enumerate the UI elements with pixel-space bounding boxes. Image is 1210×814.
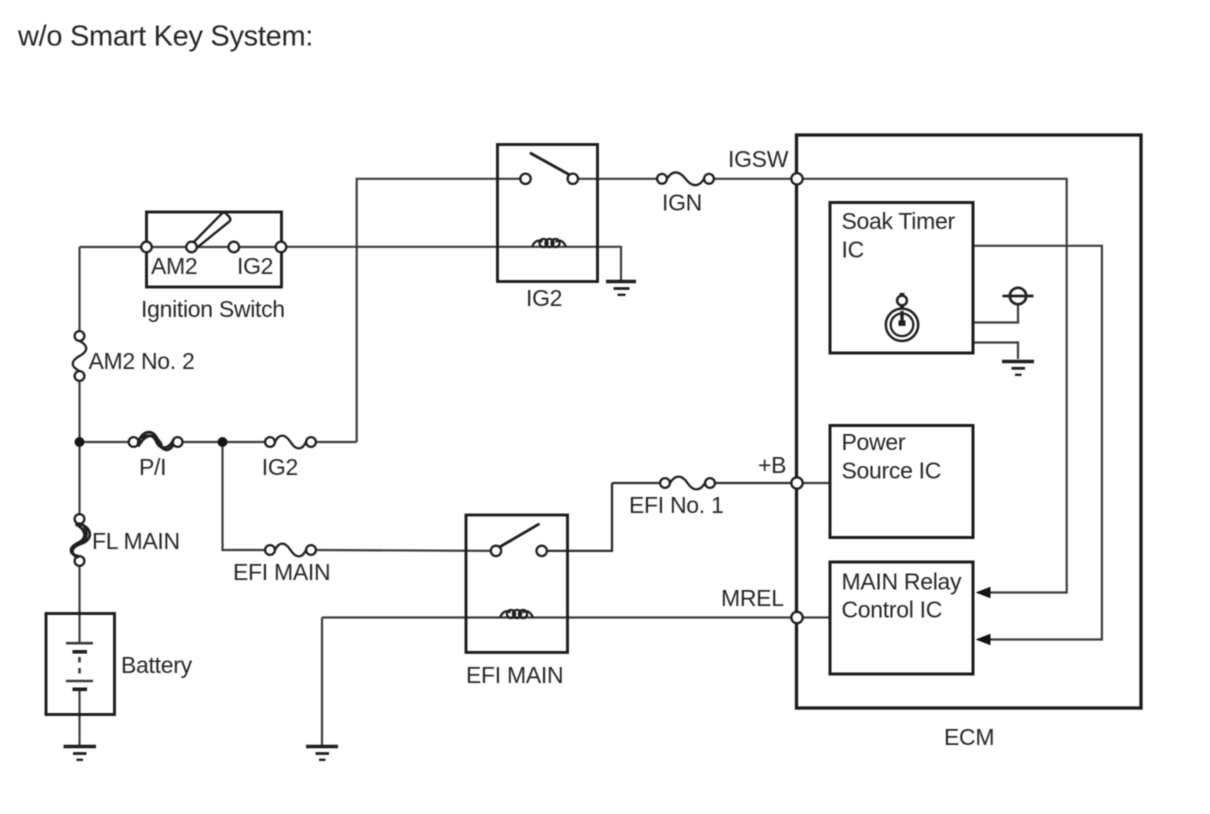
wire: soak timer output run to MAIN relay control arrow xyxy=(973,246,1102,640)
battery cell plates xyxy=(66,643,93,689)
svg-text:MREL: MREL xyxy=(721,585,784,611)
svg-text:MAIN Relay: MAIN Relay xyxy=(842,569,962,595)
EFI MAIN relay box xyxy=(466,515,568,652)
junction dot mid xyxy=(218,437,228,447)
wire: ignition switch internal row xyxy=(147,246,282,248)
arrow into MAIN relay control from soak timer line xyxy=(976,634,991,645)
svg-text:IGN: IGN xyxy=(662,190,702,216)
wire: EFI relay output up to EFI No.1 fuse and +B node xyxy=(547,483,792,551)
Power Source IC box xyxy=(830,426,973,538)
svg-text:AM2: AM2 xyxy=(151,253,197,279)
EFI relay contacts xyxy=(491,546,547,556)
ignition switch terminal circles xyxy=(141,242,286,253)
fuse IGN xyxy=(657,172,714,185)
fusible link P/I xyxy=(129,432,183,450)
EFI relay blade xyxy=(501,524,539,546)
MAIN Relay Control IC box xyxy=(830,562,973,674)
svg-text:Soak Timer: Soak Timer xyxy=(842,208,956,234)
svg-text:w/o Smart Key System:: w/o Smart Key System: xyxy=(17,21,313,53)
wire: soak timer terminal output xyxy=(973,305,1018,323)
IG2 relay blade xyxy=(531,153,569,174)
svg-text:FL MAIN: FL MAIN xyxy=(92,528,180,554)
wire: horizontal bus at fuses P/I and IG2 xyxy=(80,441,357,443)
junction dot left xyxy=(75,437,85,447)
wire: ignition switch AM2 feed xyxy=(80,246,142,248)
wire: EFI relay coil ground drop xyxy=(321,618,323,746)
svg-text:IG2: IG2 xyxy=(237,253,273,279)
ECM box xyxy=(797,135,1142,708)
svg-text:Control IC: Control IC xyxy=(842,597,943,623)
ignition switch lever xyxy=(193,213,230,248)
wire: EFI MAIN fuse to relay contact xyxy=(316,549,492,552)
svg-text:IG2: IG2 xyxy=(526,285,562,311)
svg-text:IG2: IG2 xyxy=(262,454,298,480)
wire: battery main vertical bus xyxy=(78,247,80,745)
ground below EFI relay coil xyxy=(306,747,338,760)
svg-text:AM2 No. 2: AM2 No. 2 xyxy=(89,348,195,374)
wire: riser from IG2 fuse to IG2 relay contact xyxy=(357,179,498,442)
wire: MREL stub into MAIN Relay Control IC xyxy=(803,616,831,618)
EFI relay coil xyxy=(500,610,533,618)
wire: soak timer ground output xyxy=(973,343,1018,360)
wire: ignition IG2 terminal to IG2 relay coil xyxy=(287,246,498,248)
svg-text:Power: Power xyxy=(842,429,906,455)
wire: +B stub into Power Source IC xyxy=(803,482,831,484)
fuse EFI No. 1 xyxy=(660,477,715,490)
svg-text:P/I: P/I xyxy=(139,454,166,480)
soak timer clock icon xyxy=(886,294,918,341)
svg-text:EFI MAIN: EFI MAIN xyxy=(233,559,330,585)
wire: IG2 relay coil line and ground drop xyxy=(498,247,622,280)
IG2 relay box xyxy=(498,145,598,282)
ground for soak timer xyxy=(1002,362,1034,375)
arrow into MAIN relay control from IGSW line xyxy=(976,587,991,598)
svg-text:IC: IC xyxy=(842,237,864,263)
wire: IGSW internal run to MAIN relay control arrow xyxy=(803,179,1067,593)
svg-text:+B: +B xyxy=(758,452,786,478)
ignition switch box xyxy=(147,212,282,287)
svg-text:IGSW: IGSW xyxy=(728,146,789,172)
svg-text:Source IC: Source IC xyxy=(842,458,942,484)
fuse IG2 xyxy=(265,436,316,449)
IG2 relay coil xyxy=(532,239,566,247)
svg-text:EFI MAIN: EFI MAIN xyxy=(466,662,563,688)
svg-text:ECM: ECM xyxy=(944,724,994,750)
node +B xyxy=(791,477,802,488)
wire: EFI MAIN branch down from junction xyxy=(223,442,266,550)
wire: MREL line through EFI MAIN relay coil xyxy=(322,616,792,618)
ground below battery xyxy=(64,747,97,760)
node MREL xyxy=(791,612,802,623)
svg-text:Ignition Switch: Ignition Switch xyxy=(141,296,285,322)
node IGSW xyxy=(791,173,802,184)
svg-text:EFI No. 1: EFI No. 1 xyxy=(629,492,723,518)
battery box xyxy=(46,614,115,715)
IG2 relay contacts xyxy=(520,174,578,184)
wire: IG2 relay contact row xyxy=(498,178,792,180)
Soak Timer IC box xyxy=(830,203,973,354)
soak timer output terminal circle xyxy=(1003,288,1034,304)
fuse AM2 No. 2 xyxy=(73,331,87,381)
ground for IG2 relay coil xyxy=(606,282,636,295)
fusible link FL MAIN xyxy=(71,514,90,566)
fuse EFI MAIN xyxy=(265,544,316,557)
svg-text:Battery: Battery xyxy=(121,652,193,678)
